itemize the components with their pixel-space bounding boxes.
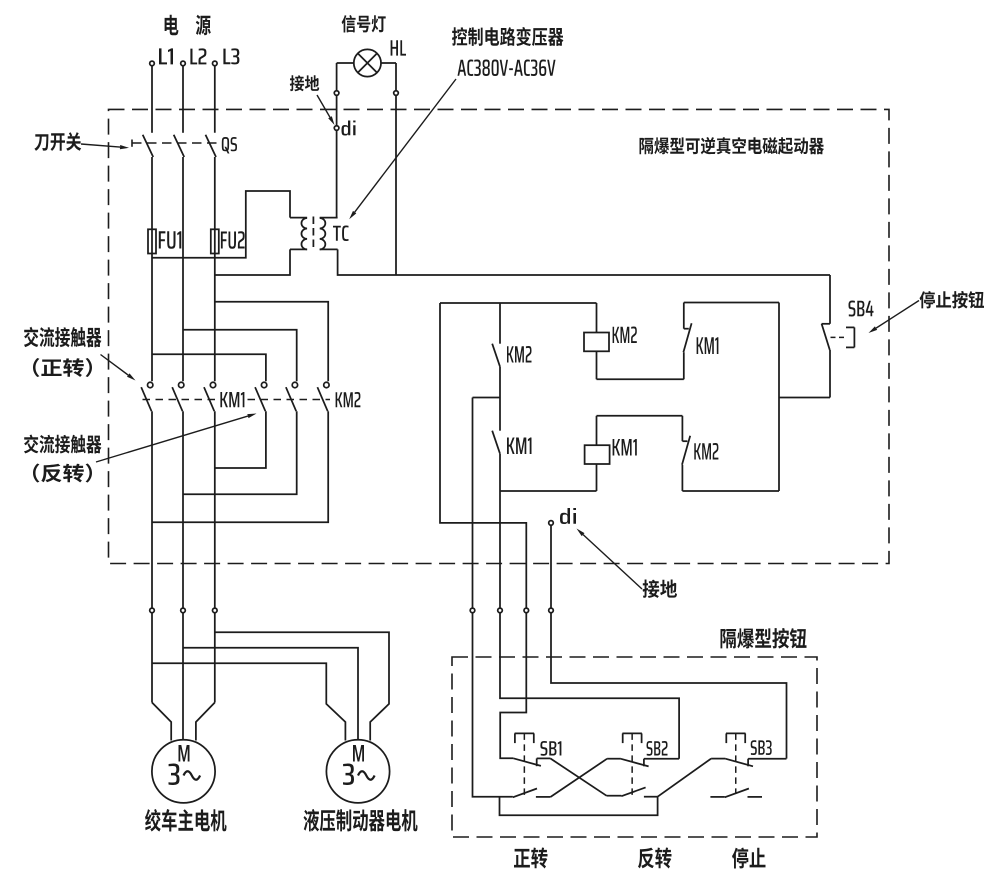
label 正转 (forward) <box>514 848 548 869</box>
wire L2 branch to motor 2 middle lead <box>183 648 358 740</box>
terminal L2 <box>181 61 186 66</box>
label di (upper) <box>342 121 356 136</box>
label 隔爆型按钮 (explosion-proof buttons) <box>721 628 807 649</box>
wire SB4 output rail (vertical) <box>778 303 780 492</box>
knife switch QS pole 2 blade <box>174 135 185 157</box>
transformer TC secondary winding <box>320 218 338 250</box>
terminal on lamp right wire <box>394 91 399 96</box>
wire KM2 pole2 bottom to L2 output <box>183 411 297 494</box>
label 交流接触器 (正转) line2 <box>33 358 92 377</box>
wire V output (L2) to motor terminal <box>182 411 184 740</box>
contactor KM1 main contact pole 2 <box>172 382 184 411</box>
wire row1 right rail <box>684 302 779 304</box>
SB3 NC contact (break) <box>725 759 786 767</box>
motor M1 circle (winch main motor) <box>152 740 215 803</box>
coil KM1 <box>585 416 610 491</box>
wire W into motor 1 <box>196 703 215 741</box>
contactor KM1 main contact pole 1 <box>141 382 153 411</box>
auxiliary contact KM2 NC (interlock row2) <box>682 416 690 491</box>
label 3~ (motor 1) <box>169 764 201 786</box>
label SB4 <box>849 301 874 317</box>
wire L2 drop to QS <box>182 66 184 133</box>
wire FU1 to transformer primary top <box>152 191 290 258</box>
wire U into motor 1 <box>152 703 171 741</box>
wire W output (L3) to motor terminal <box>214 411 216 702</box>
SB1 NO contact (make) <box>513 789 551 798</box>
label: 隔爆型可逆真空电磁起动器 <box>640 137 825 155</box>
stop button SB4 NC contact <box>822 324 830 398</box>
terminal button wire 3 <box>524 608 529 613</box>
signal lamp HL <box>354 49 381 76</box>
stop button SB4 operator <box>831 327 855 347</box>
label L3 <box>223 48 239 64</box>
label KM1 (coil row2) <box>613 439 637 456</box>
button station enclosure 隔爆型按钮 (dashed box) <box>452 657 817 837</box>
label 信号灯 (signal lamp) <box>342 15 386 33</box>
motor M2 circle (hydraulic brake motor) <box>326 740 389 803</box>
contactor KM2 main contact pole 2 <box>286 382 298 411</box>
label SB3 <box>751 740 772 755</box>
label KM1 (NC contact row1) <box>697 337 719 354</box>
label 交流接触器 (正转) line1 <box>24 327 102 347</box>
auxiliary contact KM1 NO (self-hold row2) <box>492 398 500 454</box>
leader arrow 交流接触器反转 -> KM2 pole1 <box>96 414 257 463</box>
ground terminal di (lower) <box>549 521 554 526</box>
wire L2 to KM2 pole2 top <box>183 330 297 382</box>
contactor KM2 main contact pole 1 <box>255 382 267 411</box>
label 液压制动器电机 (hydraulic brake motor) <box>304 809 418 832</box>
label FU2 <box>221 231 245 248</box>
auxiliary contact KM1 NC (interlock row1) <box>683 303 691 380</box>
terminal motor wire V <box>181 608 186 613</box>
terminal button wire 4 (earth) <box>549 608 554 613</box>
label QS <box>222 137 237 154</box>
wire crossover SB1NO to SB2NC <box>551 759 621 797</box>
label M (motor 2) <box>353 745 364 762</box>
KM2 linkage (dashed) <box>248 399 331 401</box>
terminal L3 <box>213 61 218 66</box>
knife switch QS pole 1 blade <box>143 135 154 157</box>
label 交流接触器 (反转) line2 <box>33 464 92 483</box>
wire SB4 output to junction <box>779 397 830 399</box>
wire L3 QS to FU2 <box>214 157 216 229</box>
SB2 NC contact (break) <box>621 759 679 767</box>
contactor KM2 main contact pole 3 <box>317 382 329 411</box>
wire earth di to SB3 <box>551 525 787 759</box>
terminal motor wire W <box>213 608 218 613</box>
terminal on lamp left wire <box>334 91 339 96</box>
label SB2 <box>647 741 668 756</box>
SB2 NO contact (make) <box>621 787 657 796</box>
wire row2 bottom rail right <box>682 490 779 492</box>
wire SB2 junction to SB3 NC <box>658 759 726 797</box>
label KM2 (coil row1) <box>613 327 637 344</box>
transformer TC primary winding <box>290 218 307 250</box>
wire L1 drop to QS <box>151 66 153 133</box>
wire L3 to KM2 pole3 top <box>215 302 328 382</box>
terminal button wire 1 <box>470 608 475 613</box>
label: 电 源 (power source) <box>165 15 211 35</box>
label 停止 (stop) <box>732 848 766 869</box>
knife switch QS pole 3 blade <box>206 135 217 157</box>
transformer TC core <box>312 217 314 251</box>
label di (lower) <box>560 508 576 524</box>
wire L3 branch to motor 2 right lead <box>215 632 389 740</box>
label KM1 (main contacts) <box>220 392 244 407</box>
fuse FU1 <box>148 229 156 253</box>
wire row1 rail to button wire 3 (feeds SB1 NC) <box>440 303 526 758</box>
ground terminal di (upper) <box>334 126 339 131</box>
wire lamp right lead <box>381 63 396 275</box>
label 控制电路变压器 (control circuit transformer) <box>452 27 564 46</box>
wire L3 drop to QS <box>214 66 216 133</box>
wire FU2 to transformer primary bottom <box>215 249 290 275</box>
wire L3 FU2 to KM1 pole3 <box>214 254 216 382</box>
label KM2 (NO contact row1) <box>507 346 532 363</box>
auxiliary contact KM2 NO (self-hold) <box>492 303 500 398</box>
leader arrow 接地 -> di lower <box>577 529 643 590</box>
wire button wire 2 (to SB2 NC right) <box>500 454 679 759</box>
terminal motor wire U <box>150 608 155 613</box>
label KM2 (NC contact row2) <box>694 443 718 460</box>
label 绞车主电机 (winch main motor) <box>145 809 227 832</box>
label TC <box>333 226 349 242</box>
label KM2 (main contacts) <box>336 392 361 407</box>
leader arrow 接地 -> di <box>317 95 335 125</box>
wire KM1 coil top to KM2 NC <box>597 415 683 417</box>
wire KM2 pole3 bottom to L1 output <box>152 411 328 522</box>
SB1 NC contact (break) <box>513 758 550 766</box>
push button SB1 operator <box>515 733 535 797</box>
wire TC secondary bottom to control feed rail <box>338 249 830 275</box>
wire SB1/SB2 common bottom <box>500 797 658 816</box>
fuse FU2 <box>211 229 219 253</box>
wire L1 to KM2 pole1 top <box>152 354 266 381</box>
wire L1 FU1 to KM1 pole1 <box>151 254 153 382</box>
push button SB3 operator <box>726 733 746 792</box>
wire L2 QS down <box>182 157 184 381</box>
leader arrow 控制电路变压器 -> TC <box>349 79 456 219</box>
label HL <box>391 40 406 55</box>
leader arrow 交流接触器正转 -> KM1 pole1 <box>101 355 136 381</box>
KM1 linkage (dashed) <box>143 399 217 401</box>
wire row2 bottom rail left <box>500 490 597 492</box>
label 刀开关 (knife switch) <box>34 132 81 151</box>
SB3 NO contact (make, spare) <box>710 789 762 798</box>
wire button wire 1 (to SB1 NO) <box>473 398 513 797</box>
leader arrow 停止按钮 -> SB4 <box>869 301 920 334</box>
label FU1 <box>159 231 182 248</box>
label 接地 (earth, upper) <box>290 75 319 91</box>
leader arrow 刀开关 -> QS <box>81 144 129 149</box>
wire L1 branch to motor 2 left lead <box>152 663 345 740</box>
push button SB2 operator <box>622 733 642 796</box>
contactor KM1 main contact pole 3 <box>204 382 216 411</box>
wire U output (L1) to motor terminal <box>151 411 153 702</box>
knife switch QS linkage bar (dashed) <box>132 140 217 147</box>
wire L1 QS to FU1 <box>151 157 153 229</box>
label M (motor 1) <box>179 745 190 762</box>
wire crossover SB1NC to SB2NO <box>550 758 621 795</box>
label SB1 <box>540 741 561 756</box>
label L2 <box>190 48 206 64</box>
wire KM2 pole1 bottom to L3 output <box>215 411 266 468</box>
label 3~ (motor 2) <box>343 764 375 786</box>
coil KM2 <box>584 303 609 379</box>
label 停止按钮 (stop button) <box>920 291 985 309</box>
label 交流接触器 (反转) line1 <box>24 435 102 454</box>
terminal button wire 2 <box>498 608 503 613</box>
terminal L1 <box>150 61 155 66</box>
wire SB4 feed drop <box>829 275 831 324</box>
label 接地 (earth, lower) <box>643 580 678 599</box>
label L1 <box>159 48 173 64</box>
wire lamp left lead <box>337 63 354 218</box>
label AC380V-AC36V <box>458 60 556 77</box>
wire KM2 coil bottom to KM1 NC <box>597 378 684 380</box>
label 反转 (reverse) <box>638 848 672 869</box>
wire row2 top node <box>473 397 501 399</box>
enclosure of explosion-proof reversible vacuum electromagnetic starter (dashed boundary) <box>109 109 890 563</box>
label KM1 (NO contact row2) <box>507 438 532 455</box>
wire row1 left rail <box>440 302 597 304</box>
